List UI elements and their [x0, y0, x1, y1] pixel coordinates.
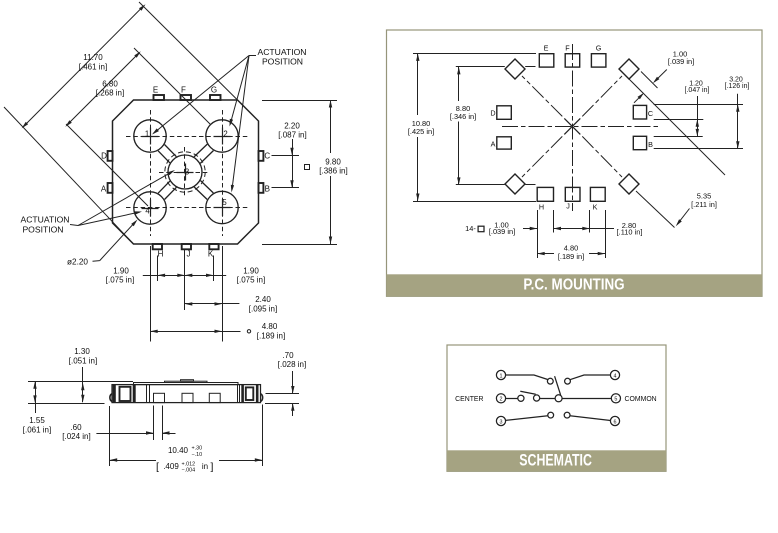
svg-text:[.039 in]: [.039 in]: [489, 227, 515, 236]
wire pivot to terminal5: [562, 398, 611, 400]
svg-text:[.047 in]: [.047 in]: [685, 87, 710, 94]
leader arrow 5.35: [678, 209, 690, 224]
dimension line 8.80: [458, 67, 460, 101]
actuator circle 4 outline: [134, 192, 166, 224]
extension line terminal top right: [266, 393, 300, 395]
extension line circle4 centerline below body: [150, 246, 152, 342]
diagonal centerline to top-right diamond: [582, 76, 622, 116]
svg-text:[.075 in]: [.075 in]: [237, 276, 265, 285]
dashed horizontal centerline through circles 4 and 5: [126, 207, 249, 209]
wire contact to terminal4: [570, 375, 611, 380]
svg-text:11.70: 11.70: [83, 53, 103, 62]
corner diamond pad bottom-right: [619, 174, 639, 194]
wire contact2 to pivot: [540, 398, 555, 400]
svg-text:POSITION: POSITION: [22, 225, 63, 235]
terminal tab F: [181, 95, 192, 100]
pad G: [591, 54, 606, 67]
wire terminal3 to contact: [506, 416, 548, 421]
svg-text:A: A: [491, 140, 496, 149]
svg-text:9.80: 9.80: [325, 158, 341, 167]
svg-text:CENTER: CENTER: [455, 396, 483, 403]
terminal tab H: [153, 244, 162, 249]
svg-text:2: 2: [223, 130, 227, 139]
svg-text:1.55: 1.55: [29, 416, 45, 425]
pad D: [497, 106, 512, 120]
svg-text:10.40: 10.40: [168, 446, 189, 455]
extension line pad B bottom long: [654, 148, 743, 150]
corner diamond pad top-right: [619, 59, 639, 79]
contact circle row3 right: [564, 412, 570, 418]
terminal tab K: [209, 244, 218, 249]
svg-text:1: 1: [500, 373, 503, 379]
terminal tab B: [259, 183, 264, 193]
svg-text:C: C: [264, 151, 270, 160]
svg-text:4: 4: [614, 373, 617, 379]
extension line diamonds top (8.80): [456, 66, 505, 68]
side view right terminal hook: [260, 394, 262, 402]
svg-text:[.425 in]: [.425 in]: [408, 127, 434, 136]
dimension line 1.30: [82, 367, 84, 402]
extension line pad B top: [654, 136, 703, 138]
schematic title bar: [447, 450, 666, 471]
svg-text:[.039 in]: [.039 in]: [668, 57, 694, 66]
svg-text:K: K: [208, 250, 214, 259]
extension line diamond right vertex short: [641, 72, 658, 89]
wire terminal1 to contact: [506, 375, 548, 380]
pad K: [590, 187, 605, 201]
pad C: [633, 105, 646, 119]
diagonal centerline to top-left diamond: [522, 76, 562, 116]
leader to circle 4 center: [78, 212, 140, 226]
side view right terminal bracket window: [246, 387, 254, 400]
svg-text:1: 1: [145, 130, 149, 139]
side view center nub: [181, 380, 194, 382]
svg-text:[.346 in]: [.346 in]: [450, 112, 476, 121]
svg-text:2: 2: [500, 397, 503, 403]
svg-text:1.30: 1.30: [74, 347, 90, 356]
svg-text:2.20: 2.20: [284, 122, 300, 131]
dimension line 9.80 vertical: [330, 100, 332, 153]
side view left seam lines: [146, 385, 148, 403]
extension line bottom edge right (for 9.80): [262, 244, 337, 246]
dimension line 10.80: [417, 53, 419, 115]
terminal tab C: [259, 151, 264, 161]
side view pin window K: [209, 393, 220, 402]
terminal tab D: [108, 151, 113, 161]
extension line tab J below body: [184, 250, 186, 310]
extension line pads top row (10.80): [413, 53, 536, 55]
svg-text:[.126 in]: [.126 in]: [725, 83, 750, 90]
pad F: [565, 54, 580, 67]
terminal 3: [496, 416, 505, 425]
terminal tab E: [154, 95, 165, 100]
extension line diamond bottom vertex long: [629, 79, 725, 175]
svg-text:C: C: [648, 109, 653, 118]
dimension line .70: [292, 371, 294, 394]
pad E: [539, 54, 554, 67]
wire contact to terminal6: [570, 416, 611, 421]
square symbol for 9.80: [305, 165, 310, 170]
extension line diagonal bottom-right (5.35): [636, 191, 675, 228]
corner diamond pad bottom-left: [505, 174, 525, 194]
dashed vertical centerline through circles 2 and 5: [222, 110, 224, 236]
svg-text:3: 3: [185, 168, 189, 177]
strut lattice circle3-circle4: [158, 181, 170, 193]
strut lattice circle3-circle1: [165, 145, 177, 157]
pad K left edge extension: [589, 210, 591, 233]
terminal 5 common: [611, 394, 620, 403]
svg-text:[.095 in]: [.095 in]: [249, 305, 277, 314]
extension line center pin right: [162, 406, 164, 441]
dashed vertical centerline through circles 1 and 4: [150, 110, 152, 236]
svg-text:G: G: [596, 44, 602, 53]
svg-text:H: H: [539, 203, 544, 212]
svg-text:B: B: [648, 140, 653, 149]
extension line terminal bottom right: [265, 403, 299, 405]
extension line body right below: [262, 405, 264, 467]
extension line tab K below body: [213, 256, 215, 282]
dimension line 6.80 diagonal: [67, 53, 139, 125]
wire terminal2 to contact: [506, 398, 518, 400]
dashed circle around actuator 3: [165, 152, 205, 192]
dimension line 2.20 vertical: [292, 139, 294, 188]
svg-text:.60: .60: [70, 423, 82, 432]
svg-text:F: F: [565, 44, 570, 53]
svg-text:.409: .409: [163, 462, 179, 471]
svg-text:]: ]: [211, 461, 214, 473]
dimension line 1.00 pad size: [523, 228, 537, 230]
switch lever row2 open: [520, 391, 535, 394]
svg-text:[.189 in]: [.189 in]: [257, 332, 285, 341]
pad H right edge extension: [553, 210, 555, 233]
pad B: [633, 136, 646, 149]
dashed vertical centerline through circle 3: [184, 147, 186, 198]
terminal tab J: [182, 244, 191, 249]
svg-text:3: 3: [500, 419, 503, 425]
contact circle row2 first: [518, 395, 524, 401]
extension line seating plane left: [28, 403, 105, 405]
svg-text:ACTUATION: ACTUATION: [257, 47, 306, 57]
extension line through circle 4 center (for 6.80): [66, 124, 148, 206]
center cross marks of actuator circles: [142, 136, 159, 138]
leader tick diameter label: [93, 260, 100, 263]
centerline vertical dash-dot: [572, 44, 574, 211]
svg-text:ACTUATION: ACTUATION: [20, 215, 69, 225]
contact circle row3 left: [548, 412, 554, 418]
leader to circle 4 edge: [100, 222, 136, 261]
dimension line .60: [96, 433, 153, 435]
side view left terminal bracket inner bar: [133, 385, 136, 402]
extension line pads bottom row (10.80): [413, 201, 536, 203]
actuator circle 1 outline: [134, 120, 166, 152]
svg-text:D: D: [490, 109, 495, 118]
centerline horizontal dash-dot: [502, 126, 658, 128]
svg-text:POSITION: POSITION: [262, 57, 303, 67]
terminal 4: [610, 370, 619, 379]
extension line through circle 2 center (for 6.80): [134, 48, 211, 125]
side view pin window J: [182, 393, 193, 402]
svg-text:[.075 in]: [.075 in]: [106, 276, 134, 285]
center actuator circle 3 outline: [168, 155, 202, 189]
svg-text:.70: .70: [282, 351, 294, 360]
side view left terminal bracket outer: [113, 385, 116, 402]
contact circle row1 left: [547, 378, 553, 384]
svg-text:E: E: [153, 86, 158, 95]
extension line pad C top long: [654, 104, 743, 106]
svg-text:K: K: [593, 203, 598, 212]
terminal 1: [496, 370, 505, 379]
svg-text:1.90: 1.90: [113, 267, 129, 276]
pivot contact circle common pole: [555, 395, 562, 402]
svg-text:+.30: +.30: [192, 446, 203, 452]
svg-text:E: E: [544, 44, 549, 53]
contact circle row1 right: [565, 378, 571, 384]
leader to circle 2: [230, 56, 249, 125]
pad A: [497, 137, 512, 149]
dashed horizontal centerline through circles 1 and 2: [126, 136, 249, 138]
extension line pad C bottom: [654, 119, 704, 121]
extension line top surface left: [28, 381, 133, 383]
center mark star: [564, 118, 580, 134]
svg-text:14-: 14-: [465, 224, 476, 233]
svg-text:A: A: [101, 184, 107, 193]
dimension line 2.40 horizontal: [185, 303, 240, 305]
dimension line 3.20: [737, 94, 739, 149]
dimension line 1.55: [35, 381, 37, 413]
extension line circle5 centerline below body: [222, 246, 224, 342]
extension line body left below: [109, 406, 111, 466]
terminal 6: [610, 416, 619, 425]
pad J: [565, 187, 580, 201]
extension line from tab B: [272, 187, 300, 189]
contact circle row2 second: [534, 395, 540, 401]
side view top plate: [134, 383, 239, 385]
svg-text:[.386 in]: [.386 in]: [319, 167, 347, 176]
side view mid layer: [165, 381, 208, 382]
extension line top edge right (for 9.80): [262, 100, 337, 102]
dimension line 11.70 diagonal: [24, 6, 144, 127]
svg-text:H: H: [158, 250, 164, 259]
actuator circle 5 outline: [206, 191, 238, 223]
svg-text:[.024 in]: [.024 in]: [62, 432, 90, 441]
svg-text:[.461 in]: [.461 in]: [79, 63, 107, 72]
terminal 2: [496, 394, 505, 403]
svg-text:[.189 in]: [.189 in]: [558, 252, 584, 261]
svg-text:1.90: 1.90: [243, 267, 259, 276]
top view: switch body octagon outline: [113, 100, 259, 244]
svg-text:G: G: [211, 86, 217, 95]
svg-text:5: 5: [614, 397, 617, 403]
svg-text:−.10: −.10: [192, 452, 203, 458]
svg-text:COMMON: COMMON: [625, 396, 657, 403]
svg-text:[.110 in]: [.110 in]: [617, 228, 643, 237]
terminal tab A: [108, 183, 113, 193]
dimension line 4.80 horizontal: [150, 331, 240, 333]
dashed horizontal centerline through circle 3: [159, 172, 209, 174]
svg-text:P.C. MOUNTING: P.C. MOUNTING: [523, 277, 624, 294]
svg-text:F: F: [181, 86, 186, 95]
pad K right edge extension: [605, 210, 607, 258]
extension line tab H below body: [157, 256, 159, 282]
svg-text:2.40: 2.40: [255, 295, 271, 304]
leader arrow 1.00 upper: [655, 70, 667, 82]
svg-text:SCHEMATIC: SCHEMATIC: [519, 452, 592, 470]
leader to circle 5: [232, 56, 249, 191]
svg-text:[.211 in]: [.211 in]: [691, 200, 717, 209]
dimension line 4.80 pc: [537, 253, 554, 255]
leader to circle 3: [78, 171, 173, 225]
svg-text:5: 5: [222, 198, 227, 207]
svg-text:ø2.20: ø2.20: [67, 258, 88, 267]
svg-text:[.061 in]: [.061 in]: [23, 426, 51, 435]
strut lattice circle3-circle2: [200, 151, 213, 164]
corner diamond pad top-left: [505, 59, 525, 79]
pad H: [537, 187, 553, 201]
svg-text:J: J: [566, 202, 570, 211]
extension line diamonds bottom (8.80): [456, 184, 505, 186]
dimension line 1.20: [697, 96, 699, 136]
switch lever row1 to pivot: [555, 376, 561, 395]
svg-text:D: D: [101, 151, 107, 160]
leader arrow 1.00 lower: [634, 94, 643, 103]
diagonal centerline to bottom-right diamond: [582, 136, 622, 177]
terminal tab G: [210, 95, 221, 100]
side view right seam lines: [237, 385, 239, 403]
svg-text:J: J: [187, 250, 191, 259]
extension line chamfer upper-right (for 11.70): [139, 2, 238, 100]
svg-text:[.268 in]: [.268 in]: [96, 89, 124, 98]
extension line center pin left: [153, 406, 155, 441]
svg-text:4.80: 4.80: [262, 322, 278, 331]
side view pin window H: [154, 393, 165, 402]
P.C. mounting panel frame: [387, 30, 763, 296]
svg-text:[: [: [156, 461, 159, 473]
strut lattice circle3-circle5: [194, 187, 207, 200]
extension line from tab C: [272, 155, 300, 157]
svg-text:in: in: [202, 462, 208, 471]
side view right terminal bracket outer: [256, 385, 259, 402]
svg-text:B: B: [265, 184, 270, 193]
P.C. mounting title bar: [387, 274, 763, 296]
svg-text:6: 6: [614, 419, 617, 425]
svg-text:[.051 in]: [.051 in]: [69, 357, 97, 366]
actuator circle 2 outline: [206, 120, 238, 152]
svg-text:[.087 in]: [.087 in]: [278, 131, 306, 140]
side view body outline: [112, 385, 261, 403]
side view left terminal bracket window: [120, 387, 131, 401]
leader tick bottom label: [70, 225, 78, 226]
svg-text:4: 4: [145, 207, 150, 216]
dimension line 10.40: [110, 460, 156, 462]
pad H left edge extension: [537, 210, 539, 258]
svg-text:−.004: −.004: [182, 467, 196, 473]
svg-text:[.028 in]: [.028 in]: [278, 360, 306, 369]
side view right terminal bracket inner bar: [241, 385, 244, 402]
svg-text:6.80: 6.80: [102, 80, 118, 89]
reference degree symbol 4.80: [247, 330, 250, 333]
dimension line 1.90 1.90 horizontal: [143, 275, 226, 277]
diagonal centerline to bottom-left diamond: [522, 136, 562, 177]
side view left terminal hook: [110, 394, 112, 402]
extension line chamfer lower-left (for 11.70): [4, 107, 134, 244]
leader to circle 1: [154, 56, 250, 134]
schematic panel frame: [447, 345, 666, 471]
leader tick top label: [249, 55, 256, 57]
